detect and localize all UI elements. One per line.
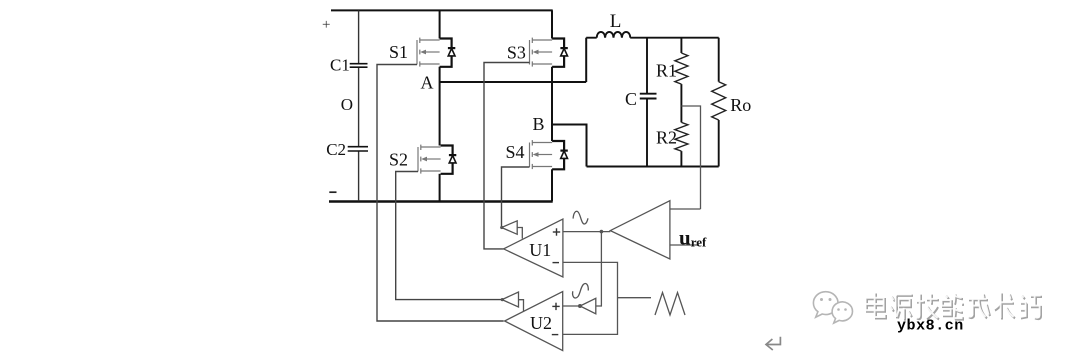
svg-text:S2: S2 [389, 150, 408, 170]
svg-text:C1: C1 [330, 56, 350, 75]
svg-text:B: B [533, 114, 545, 134]
svg-text:R2: R2 [656, 128, 677, 148]
svg-text:U1: U1 [529, 240, 551, 260]
svg-text:A: A [421, 72, 434, 92]
svg-text:uref: uref [679, 226, 707, 250]
svg-text:S1: S1 [389, 42, 408, 62]
svg-text:R1: R1 [656, 61, 677, 81]
svg-text:U2: U2 [530, 313, 552, 333]
svg-text:L: L [610, 11, 622, 32]
svg-text:+: + [322, 17, 330, 33]
svg-text:C2: C2 [326, 140, 346, 159]
svg-text:ybx8.cn: ybx8.cn [897, 317, 964, 334]
svg-text:C: C [625, 89, 637, 109]
svg-text:Ro: Ro [730, 95, 751, 115]
svg-text:S3: S3 [507, 43, 526, 63]
svg-text:O: O [341, 95, 353, 114]
svg-text:S4: S4 [506, 142, 525, 162]
